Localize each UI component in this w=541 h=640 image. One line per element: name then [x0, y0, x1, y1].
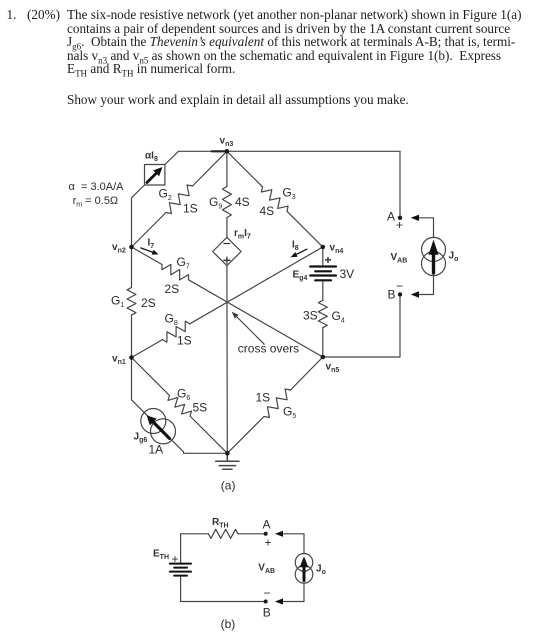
resistor G6: [168, 396, 192, 417]
svg-text:G5: G5: [283, 405, 296, 421]
arrow inside Jo fig b: [300, 556, 309, 580]
terminal arrow at B fig b: [275, 598, 283, 604]
svg-text:G2: G2: [159, 187, 172, 203]
wire top from alpha source corner to vn3 to top-right corner: [179, 150, 401, 152]
current source Jg6 circles: [141, 409, 166, 434]
resistor G1: [127, 288, 136, 316]
dot terminal B: [398, 292, 402, 296]
svg-text:G3: G3: [282, 186, 295, 202]
svg-text:1S: 1S: [183, 202, 198, 216]
svg-text:1A: 1A: [149, 443, 164, 457]
wire G6 diagonal vn1 to ground: [132, 358, 170, 396]
svg-text:−: −: [396, 279, 403, 293]
svg-text:B: B: [388, 288, 396, 302]
wire G2 diagonal upper part: [193, 151, 227, 186]
svg-text:B: B: [263, 606, 271, 620]
svg-text:cross overs: cross overs: [238, 342, 299, 356]
dot vn3: [225, 149, 230, 154]
svg-text:G9: G9: [209, 195, 222, 211]
wire vn2 up to alpha source: [132, 185, 145, 247]
dot ground node: [225, 451, 230, 456]
battery Eg4: [310, 267, 336, 281]
svg-text:3V: 3V: [340, 267, 355, 281]
svg-text:A: A: [263, 518, 271, 532]
wire G5 diagonal ground to vn5: [227, 417, 264, 454]
svg-text:+: +: [265, 536, 272, 550]
current arrow I7: [141, 248, 159, 255]
svg-text:(a): (a): [221, 479, 236, 493]
wire G9 to diamond: [226, 218, 228, 238]
svg-text:vn3: vn3: [220, 136, 234, 149]
svg-text:2S: 2S: [141, 296, 156, 310]
arrow inside Jo fig a: [429, 240, 439, 273]
wire G3 diagonal vn3-vn4 upper: [227, 151, 263, 187]
terminal arrow at A fig a: [411, 215, 419, 221]
svg-text:I8: I8: [292, 240, 299, 253]
svg-text:1S: 1S: [256, 391, 271, 405]
svg-text:2S: 2S: [165, 282, 180, 296]
wire terminal B down then left to vn5: [323, 295, 400, 358]
wire G2 diagonal vn2-vn3 lower part: [132, 213, 167, 248]
wire vn1 down to Jg6 source diagonal to ground: [132, 358, 228, 454]
wire battery to G4: [322, 282, 324, 301]
svg-text:VAB: VAB: [258, 563, 275, 576]
svg-text:4S: 4S: [235, 195, 250, 209]
terminal arrow at A fig b: [275, 531, 283, 537]
terminal arrow at B fig a: [411, 291, 419, 297]
svg-text:vn1: vn1: [112, 354, 126, 367]
diamond polarity marks: [224, 244, 230, 264]
svg-text:G1: G1: [111, 294, 124, 310]
wire left: corner down to battery: [180, 534, 182, 564]
resistor G3: [261, 187, 288, 212]
dot vn1: [129, 355, 134, 360]
dot vn4: [321, 245, 326, 250]
svg-text:+: +: [396, 218, 403, 232]
wire Jo top to arrow at A: [419, 218, 434, 238]
svg-text:Jg6: Jg6: [134, 432, 148, 445]
svg-text:G4: G4: [332, 309, 345, 325]
svg-text:(b): (b): [221, 617, 236, 631]
wire Jo(b) bottom to arrow at B: [283, 583, 304, 602]
arrow inside alpha I8 square: [147, 167, 163, 183]
resistor G5: [264, 389, 291, 418]
wire right vertical to terminal A: [399, 151, 401, 218]
wire G8 diagonal vn1 to vn4 (crosses center): [132, 340, 163, 358]
svg-text:5S: 5S: [193, 401, 208, 415]
cross overs pointer arrow: [232, 312, 265, 345]
svg-text:G8: G8: [165, 312, 178, 328]
current source Jo circles (fig b): [295, 554, 313, 572]
current arrow I8: [291, 249, 307, 257]
wire vn4 to battery: [322, 247, 324, 265]
dot terminal B fig b: [264, 600, 268, 604]
svg-text:4S: 4S: [260, 204, 275, 218]
svg-text:RTH: RTH: [212, 517, 229, 530]
wire G7 diagonal vn2 to vn5 (crosses center): [132, 247, 163, 265]
svg-text:Eg4: Eg4: [293, 270, 308, 283]
battery ETH: [170, 564, 191, 576]
dependent source r_m I7 diamond: [213, 237, 241, 265]
wire diamond to ground through crossing: [226, 266, 228, 454]
svg-text:Jo: Jo: [449, 251, 459, 264]
current source Jo circles (fig a): [422, 237, 446, 261]
wire G1 vertical vn2 to vn1: [131, 247, 133, 288]
resistor G4: [318, 300, 327, 327]
wire alpha source to top wire: [165, 151, 179, 164]
ground symbol: [216, 453, 239, 469]
svg-text:1S: 1S: [177, 334, 192, 348]
svg-text:VAB: VAB: [391, 252, 408, 265]
wire Jo(b) top to arrow at A: [283, 534, 304, 554]
svg-text:A: A: [387, 210, 395, 224]
svg-text:α = 3.0A/A: α = 3.0A/A: [69, 181, 125, 193]
resistor G9: [222, 187, 231, 218]
resistor G2: [166, 185, 193, 214]
svg-text:αI8: αI8: [145, 151, 158, 164]
svg-text:+: +: [325, 253, 332, 267]
svg-text:vn4: vn4: [330, 243, 344, 256]
dot vn2: [129, 245, 134, 250]
svg-text:vn2: vn2: [112, 242, 126, 255]
resistor G7: [162, 264, 189, 280]
resistor G8: [162, 321, 189, 342]
svg-text:+: +: [172, 552, 179, 566]
svg-text:rm = 0.5Ω: rm = 0.5Ω: [73, 195, 119, 209]
wire G4 to vn5: [322, 328, 324, 357]
arrow inside Jg6: [147, 415, 170, 438]
svg-text:−: −: [264, 586, 271, 600]
dot vn5: [321, 355, 326, 360]
wire Jo bottom to arrow at B: [419, 275, 434, 294]
svg-text:vn5: vn5: [326, 362, 340, 375]
svg-text:3S: 3S: [303, 309, 318, 323]
svg-text:G6: G6: [177, 387, 190, 403]
dependent source alpha I8 square: [145, 165, 165, 186]
svg-text:I7: I7: [148, 238, 155, 251]
wire battery bottom down and right to B: [181, 576, 266, 602]
svg-text:ETH: ETH: [153, 549, 169, 562]
bold wire segment at vn3: [212, 150, 226, 152]
dot terminal A fig b: [264, 532, 268, 536]
resistor RTH: [208, 529, 238, 538]
svg-text:Jo: Jo: [316, 564, 326, 577]
wire top: corner to RTH to A: [181, 533, 209, 535]
svg-text:rmI7: rmI7: [234, 228, 251, 241]
svg-text:G7: G7: [177, 255, 190, 271]
problem statement: [7, 8, 17, 22]
wire vn3 to G9: [226, 151, 228, 186]
dot terminal A: [398, 216, 402, 220]
wire G3 diagonal lower: [287, 211, 323, 247]
